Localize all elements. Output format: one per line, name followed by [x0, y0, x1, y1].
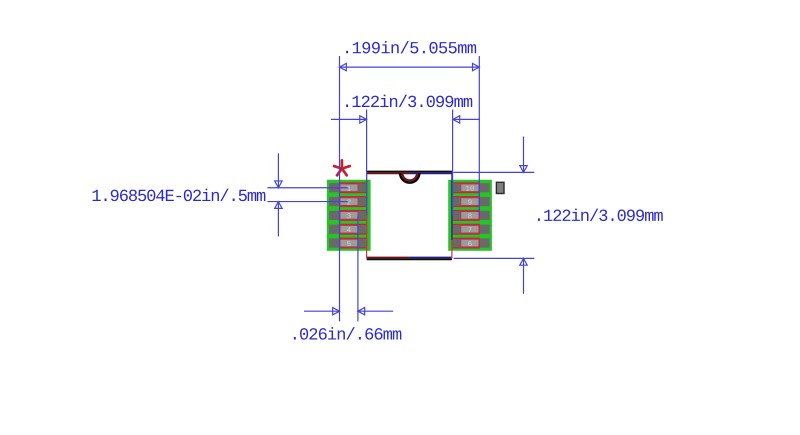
label .026in/.66mm: [294, 327, 402, 339]
package body U1 fill: [367, 173, 452, 259]
pin1 asterisk: [334, 160, 350, 175]
body bottom edge navy right half: [409, 256, 452, 258]
body right edge navy top: [451, 173, 453, 241]
pad 1: [329, 183, 367, 193]
dimension extension line x=357.9: [357, 215, 359, 321]
body bottom edge black: [367, 258, 452, 260]
pad 4: [329, 224, 367, 234]
pin1 notch black arc: [400, 173, 419, 183]
label .199in/5.055mm: [346, 41, 476, 53]
pad 2: [329, 197, 367, 207]
dimension extension line x=479.3: [478, 56, 480, 215]
dim line .122in top span: [331, 116, 480, 123]
dimension extension line x=339.5: [339, 56, 341, 321]
pad 10: [452, 183, 489, 193]
dim leaders pitch .5mm: [267, 153, 347, 236]
dimension extension line x=452.9: [452, 110, 454, 216]
label .122in/3.099mm right: [538, 209, 663, 221]
label 1.968504E-02in/.5mm: [93, 189, 266, 201]
dim bottom .66mm: [304, 308, 393, 315]
body top edge red left half: [367, 173, 410, 175]
dim right vertical 3.099mm: [454, 137, 535, 294]
solder mask opening right column: [448, 180, 492, 251]
pad 6: [452, 238, 489, 248]
pad 7: [452, 224, 489, 234]
pad 3: [329, 211, 367, 221]
pad 5: [329, 238, 367, 248]
body right edge red bottom: [451, 240, 453, 258]
body bottom edge red left half: [367, 256, 410, 258]
pad 8: [452, 211, 489, 221]
pad 9: [452, 197, 489, 207]
label .122in/3.099mm top: [346, 95, 472, 107]
solder mask opening left column: [327, 180, 371, 251]
body top edge black: [367, 171, 452, 173]
dimension extension line x=366.6: [366, 110, 368, 216]
pin1 notch red arc: [402, 173, 417, 180]
polarity mark gray rect: [496, 182, 504, 193]
dim line .199in span: [340, 63, 480, 70]
body top edge navy right half: [409, 173, 452, 175]
body left edge red: [366, 173, 368, 259]
